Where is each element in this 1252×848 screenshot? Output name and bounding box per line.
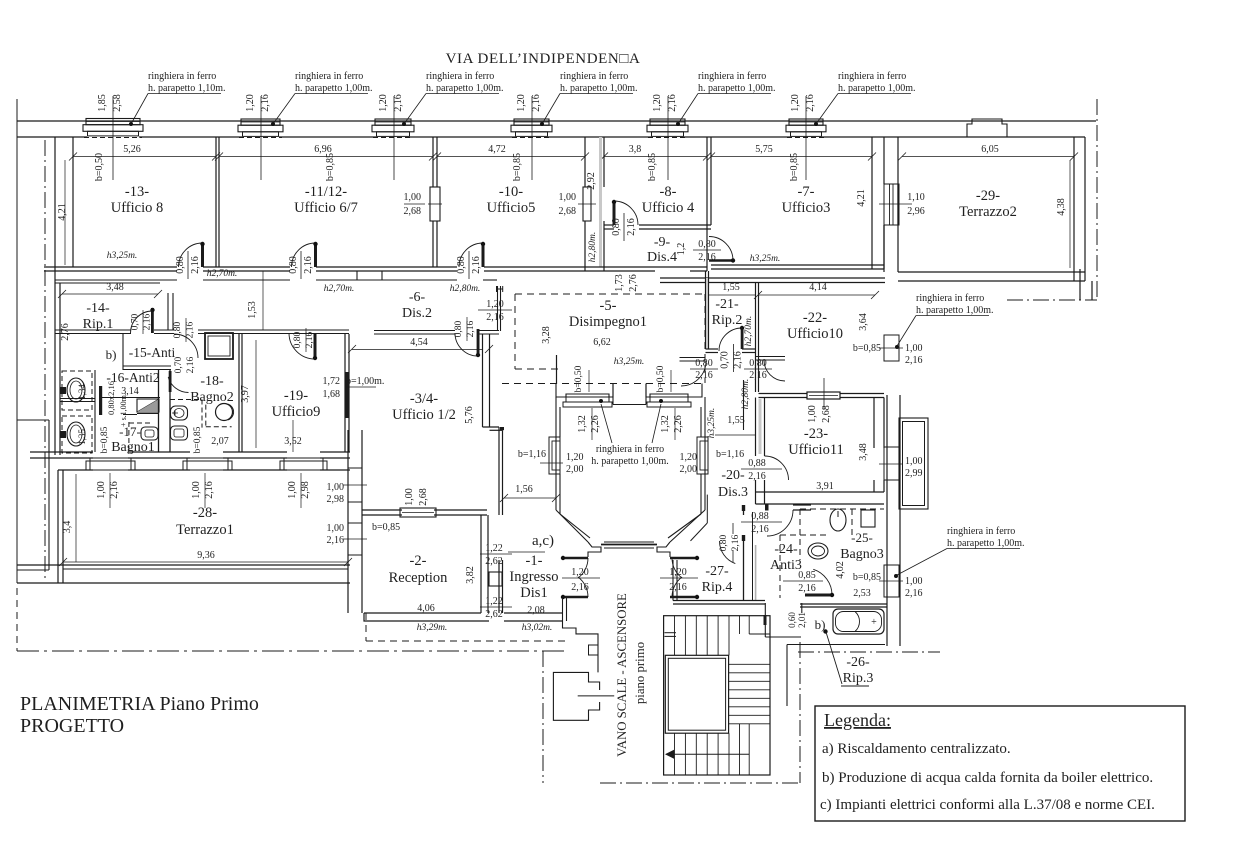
walls below entry doors: [562, 598, 564, 621]
svg-text:0,80: 0,80: [611, 218, 622, 236]
reception east wall: [480, 515, 482, 613]
svg-text:2,16: 2,16: [471, 256, 482, 274]
svg-text:-8-: -8-: [660, 184, 677, 200]
svg-text:2,16: 2,16: [748, 471, 766, 482]
svg-text:2,16: 2,16: [805, 94, 816, 112]
bathtub: [833, 609, 884, 634]
window 1,00/2,98 reception west: [348, 468, 362, 502]
svg-text:0,80: 0,80: [288, 256, 299, 274]
window W5 facade: [650, 119, 685, 125]
courtyard window top 1: [566, 397, 609, 402]
svg-text:0,80: 0,80: [454, 320, 464, 337]
terrazzo1 south wall: [17, 564, 350, 566]
bagno2 fixtures bidet: [171, 406, 188, 420]
svg-text:1,20: 1,20: [245, 94, 256, 112]
svg-text:-23-: -23-: [804, 426, 828, 442]
svg-text:ringhiera in ferro: ringhiera in ferro: [148, 71, 216, 82]
svg-text:2,16: 2,16: [204, 481, 215, 499]
svg-text:-25-: -25-: [851, 530, 873, 545]
svg-text:2,16: 2,16: [186, 321, 196, 338]
svg-text:4,72: 4,72: [488, 144, 506, 155]
window 1,00/2,16 bagno3 east: [884, 565, 899, 597]
west property line: [16, 99, 18, 583]
door Ufficio8 (0,80) with arc: [179, 243, 203, 267]
svg-text:-20-: -20-: [721, 468, 745, 483]
svg-text:h. parapetto 1,00m.: h. parapetto 1,00m.: [560, 83, 637, 94]
rip4 south wall: [673, 600, 765, 602]
anti2 dim line: [99, 397, 160, 399]
svg-text:-15-Anti: -15-Anti: [129, 345, 176, 360]
svg-text:b=0,85: b=0,85: [789, 153, 800, 181]
bagno2 shower circle: [216, 404, 233, 421]
svg-text:b=0,85: b=0,85: [372, 522, 400, 533]
svg-text:5,76: 5,76: [464, 406, 475, 424]
window W1 tick and dims 1,85/2,58: [112, 96, 114, 180]
sink bagno3: [808, 543, 828, 559]
stair treads top flight: [675, 616, 730, 656]
svg-text:2,16: 2,16: [669, 582, 687, 593]
svg-text:2,68: 2,68: [404, 206, 422, 217]
south long dash-dot boundary: [17, 650, 564, 652]
facade right segment to terrace: [898, 136, 1085, 138]
svg-text:3,48: 3,48: [106, 282, 124, 293]
svg-text:-22-: -22-: [803, 310, 827, 326]
svg-text:0,80x2,16: 0,80x2,16: [106, 381, 116, 415]
svg-text:PROGETTO: PROGETTO: [20, 715, 124, 737]
window W4 tick and dims: [531, 96, 533, 180]
vestibule north wall stub: [497, 286, 499, 331]
svg-text:1,32: 1,32: [577, 415, 588, 433]
courtyard right wall: [704, 397, 706, 510]
svg-text:a,c): a,c): [532, 533, 554, 549]
svg-text:b=1,16: b=1,16: [716, 449, 744, 460]
svg-text:3,64: 3,64: [858, 313, 869, 331]
svg-text:1,10: 1,10: [907, 192, 925, 203]
reception south wall: [364, 612, 481, 614]
svg-text:1,55: 1,55: [722, 282, 740, 293]
svg-text:2,16: 2,16: [731, 534, 741, 551]
svg-text:2,16: 2,16: [109, 481, 120, 499]
svg-text:1,68: 1,68: [323, 389, 341, 400]
svg-text:ringhiera in ferro: ringhiera in ferro: [596, 444, 664, 455]
svg-text:1,22: 1,22: [485, 543, 503, 554]
window 1,00/2,68 in wall 5|8: [583, 187, 591, 221]
svg-text:1,32: 1,32: [660, 415, 671, 433]
svg-text:1,73: 1,73: [614, 274, 625, 292]
door Ufficio5 with arc: [459, 243, 483, 267]
svg-text:1,56: 1,56: [515, 484, 533, 495]
svg-text:2,16: 2,16: [531, 94, 542, 112]
svg-text:-13-: -13-: [125, 184, 149, 200]
svg-text:2,16: 2,16: [798, 583, 816, 594]
svg-text:piano primo: piano primo: [633, 642, 647, 704]
terrazzo1 west wall: [57, 470, 59, 583]
svg-text:0,80: 0,80: [749, 358, 767, 369]
svg-text:2,16: 2,16: [695, 370, 713, 381]
courtyard left wall: [555, 397, 557, 510]
svg-text:2,16: 2,16: [190, 256, 201, 274]
svg-text:Dis1: Dis1: [520, 585, 547, 601]
svg-text:2,68: 2,68: [559, 206, 577, 217]
svg-text:ringhiera in ferro: ringhiera in ferro: [947, 526, 1015, 537]
lift shaft: [553, 672, 599, 720]
corridor south wall right segment: [483, 279, 497, 281]
svg-text:Ufficio11: Ufficio11: [788, 442, 844, 458]
west secondary dash-dot: [44, 140, 46, 580]
svg-text:Dis.3: Dis.3: [718, 485, 748, 500]
svg-text:2,00: 2,00: [566, 464, 584, 475]
rip3 room walls: [764, 603, 766, 637]
facade outer wall line: [17, 120, 1096, 122]
svg-text:b=0,85: b=0,85: [325, 153, 336, 181]
door rip4-anti3 partition: [743, 510, 745, 515]
svg-text:4,21: 4,21: [856, 189, 867, 207]
rip1 door: [151, 308, 154, 333]
svg-text:VIA DELL’INDIPENDEN□A: VIA DELL’INDIPENDEN□A: [446, 51, 641, 67]
anti2 east wall: [158, 370, 160, 452]
svg-text:2,08: 2,08: [527, 605, 545, 616]
wall bagno2|ufficio9: [238, 334, 240, 452]
svg-text:4,54: 4,54: [410, 337, 428, 348]
svg-text:Dis.2: Dis.2: [402, 306, 432, 321]
niche divider wall: [60, 398, 95, 400]
svg-text:h. parapetto 1,10m.: h. parapetto 1,10m.: [148, 83, 225, 94]
svg-text:h. parapetto 1,00m.: h. parapetto 1,00m.: [698, 83, 775, 94]
bath block bottom wall: [30, 451, 93, 453]
legend box: [815, 706, 1185, 821]
svg-text:1,20: 1,20: [652, 94, 663, 112]
anti2 door leaf bar: [99, 386, 102, 415]
svg-text:c) Impianti elettrici conformi: c) Impianti elettrici conformi alla L.37…: [820, 797, 1155, 813]
wall Ufficio6/7|Ufficio5 with window: [432, 137, 434, 187]
svg-text:Rip.1: Rip.1: [83, 317, 114, 332]
corridor wall left part lower: [55, 282, 160, 284]
south-centre dash-dot vertical: [542, 651, 544, 783]
bidet bagno3: [861, 510, 875, 527]
svg-text:2,07: 2,07: [211, 436, 229, 447]
courtyard diagonal SE: [670, 510, 705, 542]
svg-text:1,20: 1,20: [669, 567, 687, 578]
stair treads right flight: [729, 664, 770, 724]
svg-text:1,34: 1,34: [77, 384, 87, 400]
ingresso west wall lower: [498, 560, 500, 613]
svg-text:ringhiera in ferro: ringhiera in ferro: [560, 71, 628, 82]
svg-text:-24-: -24-: [774, 542, 798, 557]
window 1,00/2,16 ufficio10 east: [884, 335, 899, 361]
window W2 facade: [241, 119, 280, 125]
svg-text:2,92: 2,92: [586, 172, 597, 190]
svg-text:1,2: 1,2: [676, 243, 687, 256]
svg-text:b=0,50: b=0,50: [94, 153, 105, 181]
svg-text:h2,70m.: h2,70m.: [744, 316, 754, 347]
window W3 tick and dims: [393, 96, 395, 180]
svg-text:-9-: -9-: [654, 235, 671, 250]
svg-text:2,16: 2,16: [571, 582, 589, 593]
svg-text:Bagno2: Bagno2: [190, 390, 234, 405]
svg-text:h3,02m.: h3,02m.: [522, 623, 553, 633]
svg-text:Terrazzo1: Terrazzo1: [176, 522, 234, 538]
dis3 west passage doors: [680, 357, 706, 359]
dis3 east passage door: [756, 356, 785, 358]
svg-text:2,16: 2,16: [260, 94, 271, 112]
stair block outline: [664, 616, 770, 775]
svg-text:2,01: 2,01: [797, 612, 807, 628]
svg-text:0,85: 0,85: [798, 570, 816, 581]
svg-text:a) Riscaldamento centralizzat: a) Riscaldamento centralizzato.: [822, 741, 1011, 757]
svg-text:-10-: -10-: [499, 184, 523, 200]
svg-text:1,85: 1,85: [97, 94, 108, 112]
svg-text:2,16: 2,16: [751, 524, 769, 535]
svg-text:1,20: 1,20: [486, 299, 504, 310]
svg-text:Ufficio5: Ufficio5: [487, 200, 536, 216]
stair approach walls: [563, 621, 599, 672]
svg-text:Disimpegno1: Disimpegno1: [569, 314, 647, 330]
svg-text:2,96: 2,96: [907, 206, 925, 217]
svg-text:0,80: 0,80: [719, 534, 729, 551]
svg-text:ringhiera in ferro: ringhiera in ferro: [698, 71, 766, 82]
svg-text:Dis.4: Dis.4: [647, 250, 677, 265]
svg-text:3,4: 3,4: [62, 521, 73, 534]
svg-text:-26-: -26-: [846, 655, 870, 670]
svg-text:3,48: 3,48: [858, 443, 869, 461]
balcony rectangle: [899, 418, 928, 509]
svg-text:Ufficio 8: Ufficio 8: [111, 200, 164, 216]
svg-text:2,16: 2,16: [667, 94, 678, 112]
svg-text:-14-: -14-: [86, 301, 110, 316]
courtyard window left 1,20/2,00: [549, 437, 560, 474]
svg-text:2,00: 2,00: [680, 464, 698, 475]
svg-text:0,80: 0,80: [456, 256, 467, 274]
svg-text:2,62: 2,62: [485, 556, 503, 567]
svg-text:-1-: -1-: [526, 553, 543, 569]
wall Ufficio5|Ufficio4 with window: [584, 137, 586, 187]
svg-text:ringhiera in ferro: ringhiera in ferro: [295, 71, 363, 82]
svg-text:1,00: 1,00: [404, 488, 415, 506]
stair direction arrow: [666, 753, 749, 755]
svg-text:0,80: 0,80: [173, 321, 183, 338]
svg-text:h3,25m.: h3,25m.: [107, 251, 138, 261]
svg-text:b): b): [106, 347, 117, 362]
svg-text:3,28: 3,28: [541, 326, 552, 344]
svg-text:1,22: 1,22: [485, 596, 503, 607]
disimpegno1 dashed boundary: [515, 293, 705, 295]
door Dis.4 east: [709, 259, 733, 262]
svg-text:2,62: 2,62: [485, 609, 503, 620]
west neighbour shaft: [48, 420, 50, 570]
svg-text:0,88: 0,88: [751, 511, 769, 522]
svg-text:6,05: 6,05: [981, 144, 999, 155]
wall ufficio9|ufficio1/2 french window: [344, 334, 346, 452]
svg-text:1,00: 1,00: [807, 405, 818, 423]
window W6 facade: [789, 119, 823, 125]
anti south wall: [123, 365, 171, 367]
svg-text:h2,80m.: h2,80m.: [450, 284, 481, 294]
window W6 tick and dims: [805, 96, 807, 180]
bagno3 south wall: [800, 603, 887, 605]
wall Ufficio3 east / terrace: [871, 137, 873, 269]
svg-text:h3,25m.: h3,25m.: [707, 408, 717, 439]
svg-text:5,26: 5,26: [123, 144, 141, 155]
svg-text:2,16: 2,16: [327, 535, 345, 546]
svg-text:2,16: 2,16: [626, 218, 637, 236]
reception dashed south line: [366, 640, 565, 642]
courtyard window right 1,20/2,00: [697, 437, 708, 474]
anti2 west wall: [94, 370, 96, 452]
wall rip2 west: [705, 271, 707, 349]
east property horizontal dash-dot: [1007, 299, 1097, 301]
east wall lower: [886, 395, 888, 646]
svg-text:1,00: 1,00: [905, 456, 923, 467]
room8 bottom wall: [604, 224, 614, 226]
svg-text:-19-: -19-: [284, 388, 308, 404]
svg-text:h2,80m.: h2,80m.: [588, 232, 598, 263]
window W1 facade (1,85x2,58): [86, 119, 140, 125]
jog to ingresso west wall: [483, 426, 500, 428]
svg-text:1,35: 1,35: [77, 429, 87, 445]
west exterior wall: [54, 137, 56, 283]
rip1 east wall: [167, 293, 169, 330]
svg-text:1,20: 1,20: [516, 94, 527, 112]
reception west wall windows: [347, 430, 349, 613]
east property dash-dot line: [1096, 99, 1098, 300]
wall below shower: [123, 414, 137, 416]
svg-text:+: +: [871, 617, 877, 628]
svg-text:4,14: 4,14: [809, 282, 827, 293]
svg-text:h. parapetto 1,00m.: h. parapetto 1,00m.: [426, 83, 503, 94]
svg-text:0,70: 0,70: [131, 313, 141, 330]
courtyard SE triangle brace: [706, 495, 708, 523]
svg-text:4,21: 4,21: [57, 203, 68, 221]
ufficio9 door: [314, 333, 317, 359]
svg-text:2,16: 2,16: [733, 351, 744, 369]
svg-text:6,62: 6,62: [593, 337, 611, 348]
svg-text:1,20: 1,20: [378, 94, 389, 112]
terrazzo1 north wall lower line: [58, 469, 93, 471]
svg-text:+ s.1,00m.: + s.1,00m.: [119, 393, 128, 427]
south-east dash-dot: [798, 651, 940, 653]
closet box: [205, 333, 233, 359]
bagno2 toilet: [171, 426, 188, 440]
corridor south wall upper part: [55, 279, 177, 281]
svg-text:Rip.2: Rip.2: [712, 313, 743, 328]
wall dis3|ufficio11: [755, 398, 757, 457]
svg-text:-7-: -7-: [798, 184, 815, 200]
window W2 tick and dims 1,20/2,16: [260, 96, 262, 180]
hall south wall band: [660, 277, 885, 279]
rip2 door south: [706, 348, 719, 350]
svg-text:2,16: 2,16: [186, 356, 196, 373]
terrazzo1 dim line bottom: [63, 561, 348, 563]
svg-text:-5-: -5-: [600, 298, 617, 314]
sink boxes west: [62, 371, 92, 410]
svg-text:0,80: 0,80: [175, 256, 186, 274]
courtyard bottom sill: [604, 541, 654, 543]
svg-text:h. parapetto 1,00m.: h. parapetto 1,00m.: [916, 305, 993, 316]
svg-text:1,00: 1,00: [905, 343, 923, 354]
svg-text:Legenda:: Legenda:: [824, 710, 891, 730]
svg-text:b=0,85: b=0,85: [647, 153, 658, 181]
window 1,00/2,68 in wall 6/7|5: [430, 187, 440, 221]
svg-text:-3/4-: -3/4-: [410, 391, 438, 407]
svg-text:1,53: 1,53: [247, 301, 258, 319]
wall Ufficio8|Ufficio6/7: [215, 137, 217, 267]
svg-text:h2,70m.: h2,70m.: [207, 269, 238, 279]
svg-text:-18-: -18-: [200, 374, 224, 389]
svg-text:h2,70m.: h2,70m.: [324, 284, 355, 294]
svg-text:3,97: 3,97: [240, 385, 251, 403]
ufficio1/2 east wall: [482, 334, 484, 427]
ufficio3 bottom wall: [711, 264, 884, 266]
svg-text:2,99: 2,99: [905, 468, 923, 479]
wall west of courtyard upper: [556, 355, 558, 384]
bagno1 dashed lines: [129, 422, 152, 424]
door corridor-anti: [174, 334, 198, 358]
entry door left leafs: [563, 557, 588, 560]
svg-text:ringhiera in ferro: ringhiera in ferro: [838, 71, 906, 82]
courtyard window top 2: [650, 397, 688, 402]
ingresso radiator square: [489, 572, 502, 586]
svg-text:b=1,00m.: b=1,00m.: [346, 376, 384, 387]
svg-text:Bagno3: Bagno3: [840, 547, 884, 562]
terrazzo1 inner south line: [63, 568, 348, 570]
wall rip2|ufficio10: [755, 283, 757, 392]
svg-text:-29-: -29-: [976, 188, 1000, 204]
svg-text:h3,29m.: h3,29m.: [417, 623, 448, 633]
svg-text:1,00: 1,00: [191, 481, 202, 499]
svg-text:2,98: 2,98: [327, 494, 345, 505]
svg-text:Rip.4: Rip.4: [702, 580, 733, 595]
svg-text:b=0,85: b=0,85: [100, 426, 110, 453]
svg-text:2,16: 2,16: [749, 370, 767, 381]
svg-text:1,20: 1,20: [790, 94, 801, 112]
svg-text:3,91: 3,91: [816, 481, 834, 492]
svg-text:Ufficio 6/7: Ufficio 6/7: [294, 200, 358, 216]
svg-text:b=0,50: b=0,50: [574, 365, 584, 392]
svg-text:1,72: 1,72: [323, 376, 341, 387]
ufficio10 south wall with window: [759, 393, 808, 395]
terrace window sill 1: [90, 458, 131, 470]
window W3 facade: [375, 119, 411, 125]
window W4 facade: [514, 119, 549, 125]
svg-text:2,16: 2,16: [143, 313, 153, 330]
svg-text:1,00: 1,00: [905, 576, 923, 587]
svg-text:2,16: 2,16: [303, 256, 314, 274]
svg-text:Ufficio3: Ufficio3: [782, 200, 831, 216]
terrace chimney projection: [967, 119, 1007, 137]
svg-text:1,20: 1,20: [680, 452, 698, 463]
svg-text:b=0,85: b=0,85: [853, 572, 881, 583]
svg-text:2,16: 2,16: [698, 252, 716, 263]
svg-text:1,00: 1,00: [404, 192, 422, 203]
ufficio11 south wall: [756, 491, 885, 493]
svg-text:Ufficio 4: Ufficio 4: [642, 200, 695, 216]
door Ufficio6/7 with arc: [292, 243, 316, 267]
terrazzo2 walls: [1073, 137, 1075, 281]
svg-text:2,98: 2,98: [300, 481, 311, 499]
svg-text:9,36: 9,36: [197, 550, 215, 561]
svg-text:-27-: -27-: [705, 564, 729, 579]
courtyard top walls: [556, 384, 613, 398]
stair landing inner: [665, 655, 728, 733]
stair treads bottom flight: [675, 733, 730, 775]
svg-text:-21-: -21-: [715, 297, 739, 312]
svg-text:4,06: 4,06: [417, 603, 435, 614]
svg-text:h. parapetto 1,00m.: h. parapetto 1,00m.: [947, 538, 1024, 549]
svg-text:Terrazzo2: Terrazzo2: [959, 204, 1017, 220]
svg-text:1,00: 1,00: [96, 481, 107, 499]
recess window 1,10/2,96 to terrace: [884, 184, 899, 225]
svg-text:1,55: 1,55: [727, 415, 745, 426]
